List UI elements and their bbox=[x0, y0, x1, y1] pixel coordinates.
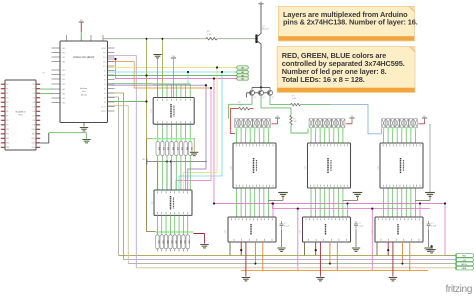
svg-text:D9: D9 bbox=[33, 125, 35, 127]
svg-text:100: 100 bbox=[294, 121, 297, 123]
svg-text:DATA: DATA bbox=[462, 267, 467, 270]
svg-text:220: 220 bbox=[171, 147, 173, 150]
svg-text:D5: D5 bbox=[33, 107, 35, 109]
svg-text:D2: D2 bbox=[104, 102, 106, 104]
svg-text:220: 220 bbox=[167, 147, 169, 150]
svg-text:P7: P7 bbox=[6, 116, 8, 118]
svg-text:Q?: Q? bbox=[254, 97, 256, 99]
svg-text:pins & 2x74HC138. Number of la: pins & 2x74HC138. Number of layer: 16. bbox=[283, 18, 418, 27]
svg-text:P8: P8 bbox=[6, 120, 8, 122]
svg-text:P9: P9 bbox=[6, 125, 8, 127]
svg-text:220: 220 bbox=[161, 240, 163, 243]
svg-text:2: 2 bbox=[235, 72, 236, 74]
svg-text:4: 4 bbox=[235, 78, 236, 80]
svg-text:(Rev3): (Rev3) bbox=[81, 94, 87, 96]
svg-text:D12: D12 bbox=[103, 57, 106, 59]
svg-text:P14: P14 bbox=[6, 147, 9, 149]
svg-text:Q?: Q? bbox=[272, 97, 274, 99]
svg-text:D14: D14 bbox=[32, 147, 35, 149]
svg-text:1000: 1000 bbox=[207, 34, 213, 36]
svg-text:LA4: LA4 bbox=[241, 77, 244, 80]
svg-text:220: 220 bbox=[157, 240, 159, 243]
svg-text:220: 220 bbox=[185, 147, 187, 150]
svg-text:BC547: BC547 bbox=[262, 29, 269, 31]
svg-text:D9: D9 bbox=[104, 70, 106, 72]
svg-text:P1: P1 bbox=[6, 89, 8, 91]
svg-text:D10: D10 bbox=[103, 66, 106, 68]
svg-text:D1: D1 bbox=[33, 89, 35, 91]
svg-text:220: 220 bbox=[170, 240, 172, 243]
svg-text:NodeMCU: NodeMCU bbox=[16, 112, 26, 114]
svg-text:D11: D11 bbox=[32, 134, 35, 136]
svg-text:D0/RX: D0/RX bbox=[101, 111, 107, 113]
svg-text:D2: D2 bbox=[33, 93, 35, 95]
svg-text:D4: D4 bbox=[33, 102, 35, 104]
svg-text:P12: P12 bbox=[6, 138, 9, 140]
svg-text:3: 3 bbox=[235, 75, 236, 77]
svg-text:P4: P4 bbox=[6, 102, 8, 104]
svg-text:220: 220 bbox=[176, 147, 178, 150]
svg-text:P6: P6 bbox=[6, 111, 8, 113]
svg-text:Q?: Q? bbox=[263, 97, 265, 99]
svg-text:LA1: LA1 bbox=[241, 66, 244, 69]
svg-text:D3: D3 bbox=[33, 98, 35, 100]
svg-text:220: 220 bbox=[181, 147, 183, 150]
svg-text:220: 220 bbox=[179, 240, 181, 243]
svg-text:1: 1 bbox=[235, 67, 236, 69]
svg-text:P2: P2 bbox=[6, 93, 8, 95]
svg-text:220: 220 bbox=[187, 240, 189, 243]
svg-text:D12: D12 bbox=[32, 138, 35, 140]
svg-text:D8: D8 bbox=[104, 75, 106, 77]
svg-text:D5: D5 bbox=[104, 88, 106, 90]
svg-text:0.1µF: 0.1µF bbox=[359, 226, 365, 228]
svg-text:AREF: AREF bbox=[101, 47, 106, 50]
svg-text:220: 220 bbox=[183, 240, 185, 243]
svg-text:P0: P0 bbox=[6, 84, 8, 86]
svg-text:P13: P13 bbox=[6, 143, 9, 145]
svg-text:fritzing: fritzing bbox=[446, 284, 473, 295]
svg-text:220: 220 bbox=[174, 240, 176, 243]
svg-text:D11: D11 bbox=[103, 61, 106, 63]
svg-text:D3: D3 bbox=[104, 97, 106, 99]
svg-text:220: 220 bbox=[190, 147, 192, 150]
svg-text:220: 220 bbox=[166, 240, 168, 243]
svg-text:P3: P3 bbox=[6, 98, 8, 100]
svg-text:D13: D13 bbox=[103, 52, 106, 54]
svg-text:D10: D10 bbox=[32, 129, 35, 131]
svg-text:1000: 1000 bbox=[292, 98, 296, 100]
svg-text:D8: D8 bbox=[33, 120, 35, 122]
svg-text:D4: D4 bbox=[104, 93, 106, 95]
svg-text:0.1µF: 0.1µF bbox=[431, 226, 437, 228]
svg-text:220: 220 bbox=[157, 147, 159, 150]
svg-text:Arduino Uno (Rev3): Arduino Uno (Rev3) bbox=[73, 56, 94, 59]
svg-text:D0: D0 bbox=[33, 84, 35, 86]
svg-text:D7: D7 bbox=[104, 79, 106, 81]
svg-text:D6: D6 bbox=[104, 84, 106, 86]
svg-text:P11: P11 bbox=[6, 134, 9, 136]
svg-text:P10: P10 bbox=[6, 129, 9, 131]
svg-text:0.1µF: 0.1µF bbox=[284, 226, 290, 228]
svg-text:P5: P5 bbox=[6, 107, 8, 109]
svg-text:D7: D7 bbox=[33, 116, 35, 118]
svg-text:LATCH: LATCH bbox=[461, 263, 467, 266]
svg-text:220: 220 bbox=[162, 147, 164, 150]
svg-text:D6: D6 bbox=[33, 111, 35, 113]
svg-text:Arduino: Arduino bbox=[80, 87, 88, 90]
svg-text:Total LEDs: 16 x 8 = 128.: Total LEDs: 16 x 8 = 128. bbox=[282, 75, 365, 84]
svg-text:GND: GND bbox=[462, 256, 467, 258]
svg-text:D13: D13 bbox=[32, 143, 35, 145]
